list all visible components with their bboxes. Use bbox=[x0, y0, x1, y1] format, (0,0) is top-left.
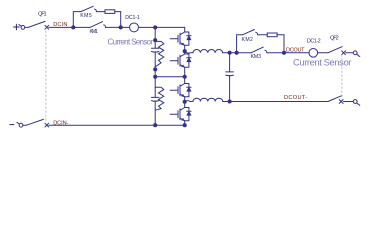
svg-text:QF2: QF2 bbox=[330, 36, 339, 42]
svg-text:DCOUT: DCOUT bbox=[286, 47, 305, 53]
svg-text:Current Sensor: Current Sensor bbox=[293, 56, 351, 67]
svg-text:DC1-1: DC1-1 bbox=[125, 15, 140, 21]
svg-text:KM1: KM1 bbox=[90, 29, 99, 35]
svg-text:KM3: KM3 bbox=[251, 54, 262, 60]
svg-text:DCIN: DCIN bbox=[53, 22, 67, 28]
svg-text:DCIN-: DCIN- bbox=[53, 120, 68, 126]
svg-text:KM5: KM5 bbox=[80, 13, 92, 19]
svg-text:KM2: KM2 bbox=[242, 37, 254, 43]
svg-text:DCOUT-: DCOUT- bbox=[284, 95, 307, 101]
svg-text:DC1-2: DC1-2 bbox=[307, 39, 321, 45]
svg-text:QF1: QF1 bbox=[38, 11, 47, 17]
svg-text:Current Sensor: Current Sensor bbox=[108, 37, 154, 46]
